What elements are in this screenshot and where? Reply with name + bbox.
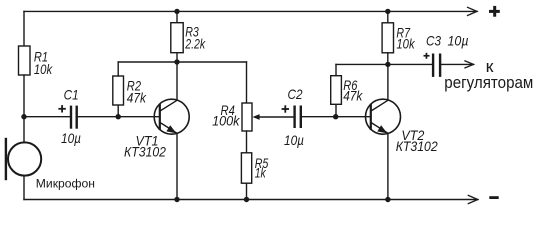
junction ground VT1 emitter [174, 197, 179, 202]
power arrow plus terminal [468, 7, 478, 15]
wire VT1 collector up [176, 62, 178, 100]
junction VT1 collector [174, 59, 179, 64]
svg-text:C2: C2 [288, 86, 303, 102]
wire R6 bottom lead [335, 104, 337, 116]
transistor VT1 [154, 99, 189, 134]
resistor R6 [331, 76, 342, 105]
potentiometer R4 [242, 103, 252, 131]
junction VT2 collector [385, 62, 390, 67]
wire R5 bottom to ground [246, 183, 248, 199]
wire VT1 emitter down to ground [176, 133, 178, 199]
svg-text:КТ3102: КТ3102 [396, 138, 438, 154]
resistor R5 [241, 153, 251, 183]
svg-text:10k: 10k [34, 61, 53, 77]
svg-text:C3: C3 [426, 33, 441, 49]
wire node A to C1 [24, 116, 70, 118]
svg-text:регуляторам: регуляторам [444, 73, 533, 92]
power arrow minus terminal [468, 195, 478, 203]
wire microphone bottom to ground rail [23, 176, 25, 200]
junction node A left rail C1 [21, 114, 26, 119]
svg-text:2.2k: 2.2k [184, 35, 206, 51]
svg-text:Микрофон: Микрофон [36, 177, 95, 191]
svg-text:10µ: 10µ [448, 33, 469, 49]
resistor R7 [382, 23, 393, 53]
wire R3 bottom lead [176, 53, 178, 62]
svg-text:10µ: 10µ [61, 130, 81, 146]
wire R6 top to VT2 collector node line [335, 64, 337, 75]
plus polarity C3 [424, 55, 430, 57]
svg-text:47k: 47k [343, 88, 363, 104]
microphone BM1 [8, 142, 41, 175]
resistor R3 [171, 23, 183, 53]
plus polarity C2 [282, 108, 289, 110]
wire top supply rail [24, 10, 477, 12]
junction top rail R7 [385, 9, 390, 14]
svg-text:47k: 47k [127, 90, 147, 106]
wire C1 to VT1 base [78, 116, 160, 118]
wire R7 top lead [387, 11, 389, 22]
resistor R2 [113, 76, 124, 105]
wire VT2 collector up [387, 64, 389, 100]
capacitor C2 [293, 107, 295, 127]
wire VT1 collector node line [118, 61, 246, 63]
junction top rail R3 [174, 9, 179, 14]
svg-text:КТ3102: КТ3102 [124, 143, 166, 159]
wire R2 bottom lead [117, 105, 119, 117]
wire R1 bottom to microphone [23, 75, 25, 143]
wire R4 to R5 [246, 131, 248, 153]
wire R2 top to collector node line [117, 62, 119, 76]
svg-text:100k: 100k [212, 113, 240, 129]
wire R7 bottom lead [387, 53, 389, 65]
svg-text:C1: C1 [64, 87, 79, 103]
junction R6 base VT2 [333, 114, 338, 119]
plus symbol supply [489, 10, 500, 13]
plus polarity C1 [58, 108, 65, 110]
junction ground VT2 emitter [385, 197, 390, 202]
minus symbol supply [489, 196, 498, 199]
wire R4 wiper to C2 [259, 116, 293, 118]
wire VT2 collector node line [336, 63, 432, 65]
svg-text:1k: 1k [255, 165, 267, 181]
capacitor C3 [432, 55, 434, 76]
wire bottom ground rail [24, 199, 478, 201]
resistor R1 [19, 46, 31, 75]
wire C3 output arrow [441, 63, 473, 65]
wire left rail top corner down to R1 [23, 11, 25, 46]
wire collector node down to R4 [246, 62, 248, 103]
wire VT2 emitter down to ground [387, 133, 389, 199]
capacitor C1 [70, 107, 72, 128]
svg-text:10k: 10k [396, 36, 415, 52]
wire R3 top lead [176, 11, 178, 22]
svg-text:10µ: 10µ [284, 132, 304, 148]
wire C2 to VT2 base [302, 116, 370, 118]
junction ground R5 [244, 197, 249, 202]
junction R2 base VT1 [116, 114, 121, 119]
transistor VT2 [366, 99, 401, 134]
